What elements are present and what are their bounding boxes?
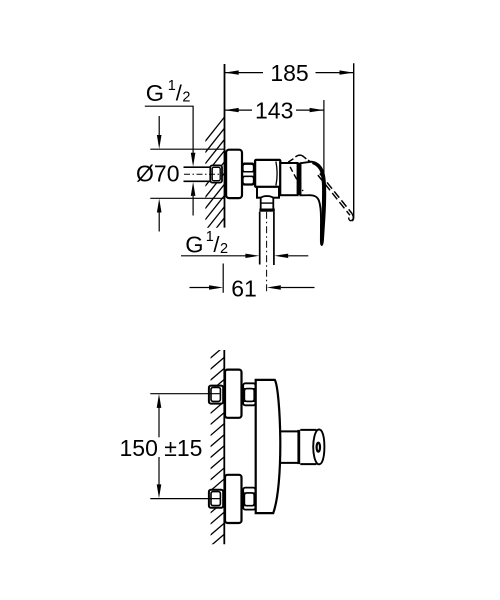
svg-text:Ø70: Ø70 — [136, 161, 179, 187]
outlet dome (top view) — [261, 196, 274, 209]
label G 1/2 (bottom of top view) — [185, 229, 228, 258]
svg-text:143: 143 — [255, 98, 293, 124]
leader G 1/2 (top) — [145, 106, 196, 215]
dimension 61 — [190, 264, 315, 302]
svg-text:G: G — [146, 80, 164, 106]
body (bottom view) — [256, 380, 281, 513]
lower escutcheon (bottom view) — [225, 475, 242, 523]
centerline of inlet (top view) — [184, 173, 223, 175]
svg-text:185: 185 — [270, 60, 308, 86]
lower wall nut (bottom view) — [209, 490, 223, 508]
dimension 150 ±15 — [120, 394, 222, 499]
body (top view) — [255, 160, 280, 187]
dimension Ø70 — [136, 116, 224, 232]
wall line (bottom view) — [223, 350, 225, 544]
svg-text:2: 2 — [220, 241, 228, 257]
leader G 1/2 (bottom of top view) — [181, 254, 308, 258]
extension line 143 behind handle — [323, 100, 325, 185]
handle grip (bottom view) — [300, 430, 317, 464]
handle end cap (bottom view) — [313, 429, 324, 464]
wall hatch (top view) — [205, 117, 225, 254]
cap ring (top view) — [280, 163, 297, 195]
upper escutcheon (bottom view) — [225, 370, 242, 418]
outlet pipe (top view) — [260, 212, 274, 265]
upper wall nut (bottom view) — [209, 386, 223, 404]
outlet shoulder (top view) — [257, 187, 279, 198]
handle neck (bottom view) — [280, 431, 298, 463]
handle up-position dashed outline (top view) — [288, 155, 310, 162]
svg-text:61: 61 — [231, 276, 257, 302]
handle seam (top view) — [297, 163, 300, 195]
union nut (top view) — [242, 163, 254, 184]
handle seam (bottom view) — [297, 430, 300, 464]
wall nut (top view) — [210, 165, 222, 182]
upper union nut (bottom view) — [243, 383, 255, 405]
handle end indicator (bottom view) — [317, 443, 320, 452]
extension line 185 (handle tip) — [352, 63, 354, 221]
wall line (top view) — [224, 64, 226, 228]
wall hatch (bottom view) — [204, 346, 225, 574]
svg-text:150 ±15: 150 ±15 — [120, 435, 203, 461]
handle up-position lower dashed edge (top view) — [290, 167, 303, 191]
svg-text:G: G — [185, 232, 203, 258]
escutcheon (top view) — [226, 150, 242, 198]
svg-text:2: 2 — [182, 89, 190, 105]
outlet centerline (top view) — [266, 212, 268, 293]
label G 1/2 (top) — [146, 78, 191, 106]
inlet pipe (top view) — [184, 167, 211, 181]
dimension 185 — [225, 60, 354, 86]
svg-text:1: 1 — [168, 78, 176, 94]
dimension 143 — [225, 98, 324, 124]
handle lever (top view) — [301, 162, 326, 245]
outlet seal band (top view) — [259, 209, 274, 212]
handle open-position dashed outline (top view) — [318, 174, 353, 221]
lower union nut (bottom view) — [243, 488, 255, 510]
